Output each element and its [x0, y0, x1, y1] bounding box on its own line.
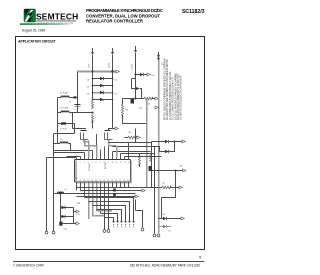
- wire R9 top: [122, 99, 124, 105]
- wire box top: [54, 133, 75, 135]
- wire feed: [47, 157, 77, 159]
- capacitor C20: [62, 206, 66, 209]
- vid junction dots: [113, 221, 135, 223]
- svg-text:© 1998 SEMTECH CORP.: © 1998 SEMTECH CORP.: [13, 264, 44, 268]
- arrow D6 out: [181, 217, 184, 220]
- Semtech wordmark: [36, 12, 78, 25]
- junction bank right 99.5: [112, 99, 114, 101]
- inductor L3: [60, 142, 68, 143]
- capacitor C8 plates: [75, 104, 81, 106]
- rail output arrow: [116, 70, 119, 73]
- capacitor C21: [62, 215, 66, 218]
- terminal T3: [103, 230, 106, 233]
- resistor R3: [61, 122, 66, 124]
- junction bank left 99.5: [92, 99, 94, 101]
- wire right drop x154: [154, 147, 156, 234]
- wire R11 bottom: [139, 164, 141, 167]
- wire +5V drop: [92, 55, 94, 72]
- diode D6: [163, 217, 167, 220]
- diode D8 row: [132, 79, 142, 99]
- gray drop x146: [146, 99, 148, 188]
- wire D5 out: [169, 142, 175, 152]
- wire under IC y190: [81, 190, 143, 192]
- wire D7 in gray: [159, 226, 164, 228]
- junction D4: [174, 141, 176, 143]
- gray trace below IC 3: [97, 183, 113, 211]
- wire R11 top: [139, 154, 141, 157]
- logo green underline: [20, 23, 70, 25]
- arrow 3.3V out: [155, 106, 158, 109]
- diode D3: [140, 73, 144, 76]
- wire Q6 out: [152, 170, 183, 172]
- arrow sense out: [76, 210, 79, 213]
- wire Q6 box: [162, 171, 176, 219]
- resistor R9: [122, 105, 124, 116]
- wire +12V drop: [112, 55, 114, 72]
- arrow R7 out: [179, 186, 182, 189]
- wire x135 drop: [135, 129, 137, 143]
- capacitor C22 body: [59, 222, 62, 226]
- junction cluster top: [60, 193, 62, 195]
- wire R4 right: [152, 98, 155, 100]
- wire D4 in: [152, 141, 166, 143]
- junction D3: [135, 74, 137, 76]
- terminal T1: [45, 231, 48, 234]
- svg-text:5: 5: [199, 255, 202, 260]
- arrow Q4 out: [115, 127, 118, 130]
- fanout wire f2: [89, 202, 130, 221]
- junction dot rail b: [111, 70, 114, 73]
- wire L1 right stub: [69, 97, 78, 99]
- inductor L1: [61, 96, 69, 97]
- wire R3 drop: [74, 124, 76, 134]
- gray drop into IC 3: [116, 146, 118, 158]
- wire cap row 3: [63, 223, 74, 225]
- U1 top pin numbers: [76, 162, 130, 164]
- wire R3 right: [66, 123, 75, 125]
- gray drop x158: [158, 59, 160, 188]
- wire D4 out: [169, 141, 182, 143]
- U1 name: [89, 162, 107, 171]
- gray trace Q4 source: [109, 140, 117, 146]
- arrow ref out: [76, 222, 79, 225]
- junction bank right 92.5: [112, 92, 114, 94]
- mosfet Q4: [105, 131, 113, 140]
- wire term drop c: [136, 211, 143, 228]
- wire x151 drop: [151, 142, 153, 188]
- wire under IC y196: [77, 196, 136, 198]
- junction dot rail a: [92, 71, 94, 73]
- wire L2 left stub: [58, 112, 62, 114]
- wire bus y146: [113, 147, 160, 152]
- application circuit frame: [16, 37, 205, 250]
- wire L1 left stub: [58, 97, 62, 99]
- gray drop into IC 2: [96, 146, 98, 159]
- wire D6 in: [159, 218, 164, 220]
- gray trace below IC 2: [93, 183, 105, 216]
- gray trace Q3 source: [85, 140, 97, 146]
- diode D1: [100, 77, 104, 80]
- terminal T6: [153, 234, 156, 237]
- fanout wire f5: [101, 214, 118, 221]
- junction bank left 78.5: [92, 78, 94, 80]
- wire sense drop 2: [53, 134, 55, 232]
- wire +3.3V drop: [135, 53, 137, 99]
- arrow R5 out: [137, 136, 140, 139]
- wire under IC y193 rail: [54, 193, 136, 195]
- terminal T4: [107, 230, 110, 233]
- resistor R4: [144, 97, 153, 100]
- wire x135 low drop: [135, 200, 137, 211]
- bus right a: [113, 151, 151, 153]
- mosfet Q5 blob: [131, 99, 135, 104]
- bus wire a: [54, 152, 85, 154]
- terminal T7: [157, 234, 160, 237]
- resistor network RN1 a: [113, 189, 116, 192]
- gray corner Q3b: [84, 140, 89, 142]
- wire Q3 gate drop: [72, 113, 74, 129]
- svg-text:652 MITCHELL ROAD NEWBURY PARK: 652 MITCHELL ROAD NEWBURY PARK CA 91320: [130, 264, 200, 268]
- resistor R7: [162, 186, 171, 189]
- wire bank left rail: [92, 72, 94, 100]
- arrow Q6 out: [183, 169, 186, 172]
- input arrow +3.3V: [134, 46, 137, 53]
- notes text block: [164, 57, 183, 120]
- mosfet Q2: [100, 98, 104, 101]
- wire L3 left stub: [54, 143, 61, 145]
- wire branch 2: [93, 85, 113, 87]
- wire branch 3 gray: [93, 92, 113, 94]
- bus right b: [121, 153, 155, 155]
- wire Q4 drain up: [109, 129, 116, 131]
- wire cap row 1: [61, 207, 74, 209]
- wire D3 left: [136, 74, 141, 76]
- input arrow +12V: [111, 48, 114, 55]
- resistor R5: [128, 136, 137, 139]
- mosfet Q3: [81, 131, 89, 140]
- wire R4 left: [123, 98, 145, 100]
- wire branch 1: [93, 78, 113, 80]
- wire branch 4: [93, 99, 113, 101]
- fanout wire f4: [97, 210, 122, 221]
- wire D6 out: [167, 218, 181, 220]
- diode D2: [100, 91, 104, 94]
- junction Q6: [175, 170, 177, 172]
- wire bank right rail: [112, 72, 114, 129]
- diode D5: [165, 150, 169, 153]
- mosfet Q6 body: [149, 166, 153, 171]
- wire mid arrow stub: [74, 211, 77, 213]
- gray trace below IC 1: [88, 183, 90, 219]
- wire left riser: [57, 98, 59, 144]
- bus wire b: [54, 150, 93, 152]
- wire box bottom: [54, 150, 78, 152]
- wire bus y142: [109, 142, 152, 143]
- fanout wire f6: [105, 218, 114, 221]
- wire L2 right stub: [69, 112, 78, 114]
- wire cap row 2: [61, 216, 74, 218]
- header title: [86, 8, 163, 23]
- resistor R6: [150, 153, 152, 161]
- bus wire d: [67, 156, 81, 158]
- junction R4: [135, 98, 137, 100]
- cross mark Q2: [100, 98, 104, 101]
- arrow y190 out: [142, 189, 145, 192]
- gray right drop x158: [158, 188, 160, 234]
- cross mark Q1: [100, 84, 104, 87]
- diode D7: [163, 225, 167, 228]
- U1 bottom pin numbers: [75, 180, 129, 182]
- wire R5 left: [125, 137, 129, 139]
- op-amp U1 SC1182 body: [75, 160, 133, 184]
- mosfet Q1: [100, 84, 104, 87]
- wire R3 left: [58, 123, 62, 125]
- wire R7 out: [170, 187, 179, 189]
- rail 5V gray: [78, 71, 117, 73]
- terminal T2: [52, 231, 55, 234]
- wire D7 out gray: [167, 226, 171, 228]
- wire term drop b: [108, 206, 110, 230]
- wire divider: [78, 112, 93, 114]
- arrow y196 out: [135, 195, 138, 198]
- junction bank right 85.5: [112, 85, 114, 87]
- junction bank left 85.5: [92, 85, 94, 87]
- wire cluster left rail: [60, 194, 62, 224]
- wire D5 in: [160, 151, 166, 153]
- diode D4: [165, 140, 169, 143]
- wire under IC y187: [77, 187, 158, 189]
- U1 bottom pin stubs: [77, 182, 129, 230]
- resistor network RN1 b: [113, 193, 116, 196]
- wire R7 in: [157, 187, 162, 189]
- input arrow +12V aux: [157, 52, 160, 58]
- wire low arrow stub: [74, 223, 77, 225]
- bus right c: [125, 156, 162, 158]
- gray IC left arrow: [74, 161, 77, 182]
- inductor L4: [58, 192, 64, 193]
- arrow VLDO out: [182, 140, 185, 143]
- inductor L2: [61, 111, 69, 112]
- fanout wire f3: [93, 206, 126, 221]
- Semtech logo mark: [24, 9, 36, 22]
- junction bank right 78.5: [112, 78, 114, 80]
- fanout wire f1: [85, 198, 134, 221]
- junction bank left 92.5: [92, 92, 94, 94]
- arrow R4 out: [155, 97, 158, 100]
- resistor R8 blob: [74, 96, 77, 98]
- resistor R2: [92, 115, 94, 123]
- footer rule: [13, 260, 204, 263]
- wire Q3 gate: [73, 128, 87, 130]
- terminal T5: [141, 228, 144, 231]
- arrow D3 out: [147, 73, 150, 76]
- wire D3 right: [144, 74, 147, 76]
- wire left bus drop: [77, 72, 79, 113]
- resistor R1: [92, 101, 94, 109]
- wire term drop a: [104, 202, 106, 230]
- wire cluster right rail: [73, 208, 75, 224]
- wire sense drop 1: [46, 158, 48, 232]
- vid label marks: [113, 224, 134, 227]
- wire L3 right stub: [68, 144, 71, 151]
- input arrow +5V: [91, 48, 94, 55]
- resistor R11: [139, 157, 141, 165]
- junction dot divider: [92, 112, 94, 114]
- wire R2 tail: [92, 121, 94, 129]
- gray drop into IC 1: [88, 142, 90, 159]
- U1 top pin stubs: [77, 134, 129, 160]
- wire R9 bottom: [123, 115, 147, 123]
- junction x158: [157, 57, 159, 59]
